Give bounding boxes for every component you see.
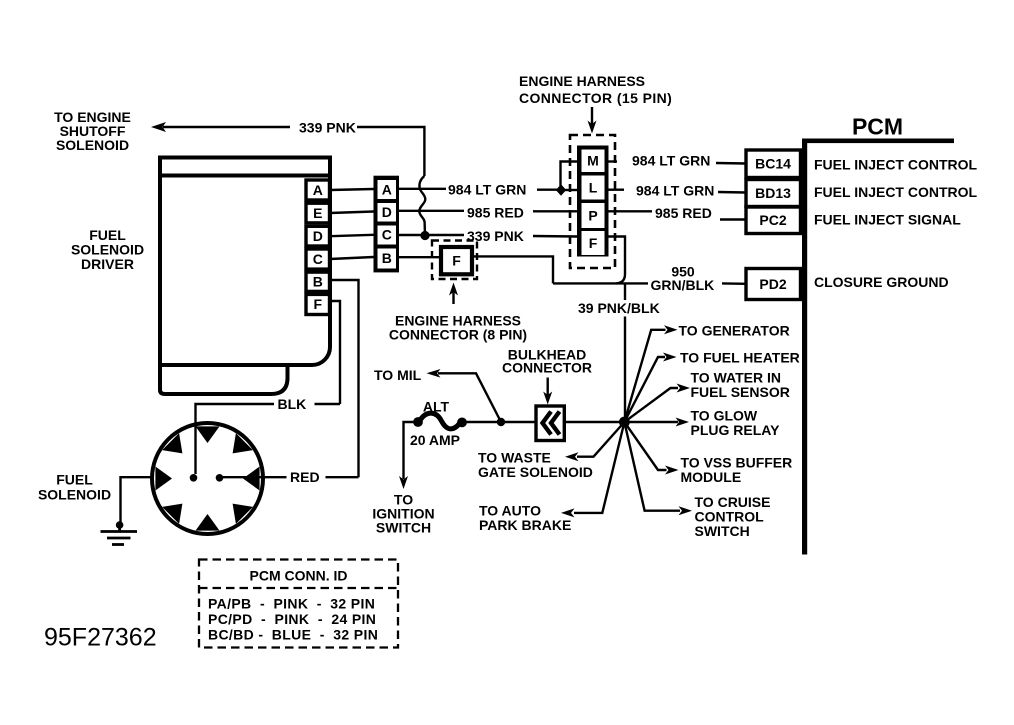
wire junction fillet 39 PNK/BLK [616,274,625,283]
svg-text:B: B [382,250,392,266]
arrow down to bulkhead connector [547,378,549,399]
wire driver D to connector C [330,235,374,236]
svg-text:D: D [382,204,392,220]
wire bulkhead to node [565,421,622,423]
wire junction to pin L [564,189,577,191]
junction dot at ground [116,521,124,529]
svg-text:PARK BRAKE: PARK BRAKE [479,517,571,533]
svg-text:FUEL: FUEL [56,472,93,488]
fuel solenoid driver bottom tray lip [160,365,288,394]
svg-text:PCM: PCM [852,114,903,140]
wire J3 to 950 GRN/BLK [473,256,554,283]
wire 339 PNK top right segment [357,127,424,176]
svg-text:984 LT GRN: 984 LT GRN [636,183,714,199]
svg-text:TO FUEL HEATER: TO FUEL HEATER [680,350,800,366]
ground symbol [101,525,138,545]
pin E of driver [306,203,330,223]
svg-text:BLK: BLK [278,396,307,412]
PCM boundary horizontal line [802,139,954,144]
svg-text:CONNECTOR (15 PIN): CONNECTOR (15 PIN) [519,90,672,106]
svg-text:FUEL SENSOR: FUEL SENSOR [691,384,790,400]
wire 950 GRN/BLK horizontal [553,282,648,284]
wire driver F down to BLK [330,301,340,404]
svg-text:A: A [313,182,323,198]
svg-text:BC/BD - BLUE - 32 PIN: BC/BD - BLUE - 32 PIN [208,627,378,643]
pin F of J2 [582,231,605,255]
svg-text:985 RED: 985 RED [467,205,524,221]
svg-text:SOLENOID: SOLENOID [56,137,129,153]
fuel solenoid inner triangles [155,426,259,530]
svg-text:339 PNK: 339 PNK [467,228,524,244]
svg-text:B: B [313,274,323,290]
wire BLK left segment [196,404,275,474]
wire 39 PNK/BLK vertical lower to node [624,317,626,420]
svg-text:PC2: PC2 [759,212,786,228]
value label 950 GRN/BLK [651,264,715,294]
arrow up to 8 pin connector [452,289,454,304]
pin PC2 of PCM [746,207,801,234]
svg-text:L: L [589,179,598,195]
pin BD13 of PCM [746,180,801,207]
svg-text:RED: RED [290,469,320,485]
svg-text:PA/PB - PINK - 32 PIN: PA/PB - PINK - 32 PIN [208,596,375,612]
fuel solenoid driver inner top line [160,174,330,178]
connector J3 dashed boundary (8 pin) [432,241,477,280]
wire ray TO WASTE GATE SOLENOID [577,422,624,457]
svg-text:SOLENOID: SOLENOID [38,487,111,503]
svg-text:P: P [588,207,597,223]
component L1 fuel solenoid circle [152,423,263,534]
label TO VSS BUFFER MODULE [681,455,793,486]
PCM connector ID table divider [199,587,398,589]
svg-text:95F27362: 95F27362 [44,624,157,652]
component U1 fuel solenoid driver outline [160,158,330,366]
svg-text:F: F [452,253,461,269]
label ENGINE HARNESS CONNECTOR (15 PIN) [519,73,672,106]
wire ray TO FUEL HEATER [624,357,665,422]
PCM connector ID table dashed box [199,560,398,648]
pin C of J1 [378,226,397,245]
wire ray TO CRUISE CONTROL SWITCH [624,422,680,511]
label FUEL SOLENOID DRIVER [71,227,144,272]
arrow to engine shutoff solenoid [151,122,166,132]
svg-text:PC/PD - PINK - 24 PIN: PC/PD - PINK - 24 PIN [208,611,376,627]
svg-text:984 LT GRN: 984 LT GRN [632,153,710,169]
pin P of J2 [582,203,605,228]
wire ray TO GENERATOR [624,330,665,422]
pin M of J2 [582,150,605,173]
label TO IGNITION SWITCH [372,492,434,536]
label TO AUTO PARK BRAKE [479,503,571,534]
connector J2 body [577,146,609,257]
wire driver B down to RED [330,280,359,477]
pin BC14 of PCM [746,150,801,178]
svg-text:SWITCH: SWITCH [376,520,431,536]
svg-text:SWITCH: SWITCH [695,523,750,539]
pin D of J1 [378,203,397,222]
svg-text:F: F [314,296,323,312]
pin B of driver [306,272,330,291]
svg-text:DRIVER: DRIVER [81,256,134,272]
wire P row to PC2 [720,218,746,220]
wire pin M tick right [609,160,618,162]
label TO WATER IN FUEL SENSOR [691,370,790,401]
label TO GLOW PLUG RELAY [691,408,781,439]
svg-text:M: M [587,153,599,169]
svg-text:FUEL INJECT CONTROL: FUEL INJECT CONTROL [814,157,978,173]
pin B of J1 [378,249,397,269]
wire ray TO WATER IN FUEL SENSOR [624,388,678,422]
svg-text:MODULE: MODULE [681,469,742,485]
label TO CRUISE CONTROL SWITCH [695,494,771,539]
svg-text:CONNECTOR (8 PIN): CONNECTOR (8 PIN) [389,327,527,343]
fuel solenoid terminal dot right [216,474,224,482]
svg-text:PD2: PD2 [759,276,786,292]
svg-text:FUEL INJECT SIGNAL: FUEL INJECT SIGNAL [814,212,961,228]
wire pin P tick right [609,210,653,212]
wire RED left segment [221,476,287,478]
svg-text:BD13: BD13 [755,185,791,201]
wire junction up to pin M [561,162,578,187]
svg-text:E: E [313,205,322,221]
pin PD2 of PCM [746,269,801,300]
wire 339 PNK row C left [399,234,464,236]
svg-text:20 AMP: 20 AMP [410,432,460,448]
svg-text:PLUG RELAY: PLUG RELAY [691,422,781,438]
wire fuel solenoid left to ground [121,477,154,522]
svg-text:D: D [313,228,323,244]
svg-text:FUEL INJECT CONTROL: FUEL INJECT CONTROL [814,184,978,200]
svg-text:BC14: BC14 [755,156,791,172]
svg-text:984 LT GRN: 984 LT GRN [448,182,526,198]
svg-text:GRN/BLK: GRN/BLK [651,277,715,293]
svg-text:PCM CONN. ID: PCM CONN. ID [250,568,348,584]
wire ray TO AUTO PARK BRAKE [574,422,624,513]
svg-text:339 PNK: 339 PNK [299,120,356,136]
connector J3 body pin F [441,247,472,274]
pin C of driver [306,249,330,269]
wire M row to BC14 [716,162,746,165]
wire 339 PNK wavy crossover segment [419,176,425,236]
wire fuse to bulkhead connector [466,421,536,423]
label BULKHEAD CONNECTOR [502,347,592,376]
wire fuse to ignition switch with arrow [404,422,415,479]
wire driver E to connector D [330,212,374,214]
wire RED right segment [326,476,359,478]
svg-text:F: F [589,235,598,251]
label FUEL SOLENOID [38,472,111,503]
connector J2 dashed boundary (15 pin) [570,135,615,268]
label ENGINE HARNESS CONNECTOR (8 PIN) [389,313,527,343]
svg-text:CLOSURE GROUND: CLOSURE GROUND [814,274,949,290]
wire pin L tick right [609,188,625,190]
wire 950 GRN/BLK to PD2 [722,282,746,285]
label TO ENGINE SHUTOFF SOLENOID [54,109,131,153]
pin A of driver [306,180,330,200]
svg-text:985 RED: 985 RED [655,205,712,221]
wire driver C to connector B [330,257,374,259]
wire 39 PNK/BLK vertical upper [624,284,626,300]
wire L row to BD13 [718,191,746,194]
connector J1 body (4 pin) [374,176,400,273]
pin D of driver [306,226,330,246]
fuse F1 ALT 20 AMP symbol [413,413,467,429]
arrow down to 15 pin connector [591,107,593,127]
wire 985 RED row D left [399,210,464,212]
svg-text:TO MIL: TO MIL [374,367,422,383]
pin A of J1 [378,180,397,199]
wire 339 PNK row C right to pin F [533,235,577,238]
svg-text:ENGINE HARNESS: ENGINE HARNESS [519,73,645,89]
wire ray TO VSS BUFFER MODULE [624,422,666,470]
PCM boundary vertical line [802,139,807,555]
wire to MIL diagonal [438,373,501,422]
svg-text:TO GENERATOR: TO GENERATOR [679,323,790,339]
junction dot 339 PNK at C row [420,231,429,240]
label TO WASTE GATE SOLENOID [478,450,593,481]
wire pin F of J2 right then down [609,237,626,275]
component bulkhead connector symbol [536,406,564,441]
arrow to MIL [427,369,441,378]
wire 984 LT GRN row A left [399,188,446,190]
wire BLK right segment [315,403,341,405]
wire driver A to connector A [330,189,374,190]
node splice junction [619,417,630,428]
junction dot TO MIL tap [497,418,505,426]
junction diamond node 984 LT GRN [556,184,566,196]
wire ray TO GLOW PLUG RELAY [624,421,678,423]
svg-text:39 PNK/BLK: 39 PNK/BLK [578,300,660,316]
wire J1 pin B to 8 pin connector [399,256,441,258]
svg-text:C: C [313,251,323,267]
svg-text:CONNECTOR: CONNECTOR [502,360,592,376]
pin F of driver [306,294,330,314]
wire 984 LT GRN row A right [537,188,557,190]
fuel solenoid terminal dot left [190,474,198,482]
svg-text:GATE SOLENOID: GATE SOLENOID [478,464,593,480]
wire 985 RED row D right to pin P [533,210,577,212]
pin L of J2 [582,176,605,200]
wire 339 PNK top left segment [163,126,290,128]
svg-text:C: C [382,227,392,243]
svg-text:A: A [382,181,392,197]
